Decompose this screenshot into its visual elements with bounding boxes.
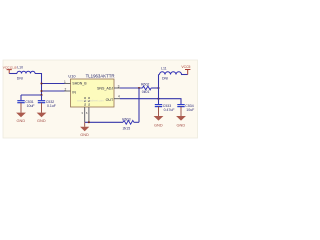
svg-text:TL1963AKTTR: TL1963AKTTR [86, 74, 115, 79]
wire input caps jumper [21, 94, 42, 96]
pin 1 SHDN_B [64, 80, 87, 86]
svg-text:DNI: DNI [162, 76, 168, 80]
svg-text:10uF: 10uF [186, 108, 194, 112]
pin GND bottom left [83, 96, 87, 122]
svg-text:DNI: DNI [17, 77, 23, 81]
svg-text:GND: GND [177, 122, 186, 127]
svg-text:GND: GND [37, 118, 46, 123]
ground below C533 [154, 107, 164, 128]
capacitor C531 [17, 95, 34, 108]
power port VCC5 [181, 65, 190, 75]
svg-text:OUT: OUT [106, 98, 114, 102]
svg-text:1: 1 [64, 80, 66, 84]
wire adj vertical [138, 88, 140, 122]
svg-text:0k01: 0k01 [142, 90, 150, 94]
ground below C532 [37, 103, 47, 123]
wire GND tie and R603 [85, 121, 123, 123]
ground below C534 [176, 107, 186, 128]
capacitor C534 [177, 104, 194, 112]
svg-text:2: 2 [65, 88, 67, 92]
pin 4 OUT [106, 95, 120, 102]
node junction pin2 [40, 90, 42, 92]
power port VCC12_B [3, 65, 17, 73]
wire SNS_ADJ to R602 [120, 87, 143, 89]
node junction adj column [138, 87, 140, 89]
wire L11 to VCC5 [181, 74, 188, 76]
svg-text:L11: L11 [161, 67, 167, 71]
wire output column [158, 75, 160, 105]
node junction bottom pins [88, 121, 90, 123]
pin GND bottom right [87, 96, 91, 122]
svg-text:U10: U10 [68, 74, 76, 79]
ground below U10 [80, 122, 89, 137]
svg-text:GND: GND [17, 118, 26, 123]
wire R602 to output column [151, 87, 158, 89]
resistor R603 [122, 118, 134, 131]
node junction caps [40, 94, 42, 96]
svg-text:VCC5: VCC5 [181, 65, 190, 69]
wire to pin 2 [42, 90, 65, 92]
node junction sns out [157, 87, 159, 89]
svg-text:GND: GND [154, 122, 163, 127]
svg-text:GND: GND [80, 132, 89, 137]
svg-text:4: 4 [118, 95, 120, 99]
wire R603 to adj column [134, 121, 139, 123]
svg-text:10uF: 10uF [27, 104, 35, 108]
svg-text:3: 3 [118, 84, 120, 88]
wire L10 to input node [35, 74, 42, 96]
inductor L11 [160, 67, 182, 81]
regulator U10 TL1963AKTTR body [68, 74, 114, 108]
svg-text:SHDN_B: SHDN_B [72, 82, 87, 86]
wire L11 left leg [159, 74, 160, 76]
resistor R602 [141, 82, 151, 94]
svg-text:L10: L10 [17, 65, 23, 69]
svg-text:0.47uF: 0.47uF [164, 108, 175, 112]
svg-text:0.1uF: 0.1uF [47, 104, 56, 108]
pin 2 IN [65, 88, 77, 95]
sheet background [3, 60, 198, 138]
svg-text:SNS_ADJ: SNS_ADJ [97, 86, 113, 90]
wire VCC12_B to L10 [9, 73, 17, 75]
node junction out column [157, 98, 159, 100]
capacitor C533 [155, 104, 175, 112]
svg-text:www.alldatasheet.com: www.alldatasheet.com [77, 98, 104, 102]
wire to pin 1 [42, 83, 65, 85]
svg-text:IN: IN [72, 91, 76, 95]
inductor L10 [17, 65, 35, 80]
node junction pin1 [40, 82, 42, 84]
capacitor C532 [38, 95, 56, 108]
svg-text:2k15: 2k15 [123, 126, 131, 130]
wire OUT rail [120, 99, 181, 105]
ground below C531 [16, 103, 26, 123]
pin 3 SNS_ADJ [97, 84, 120, 90]
svg-text:VCC12_B: VCC12_B [3, 65, 17, 69]
